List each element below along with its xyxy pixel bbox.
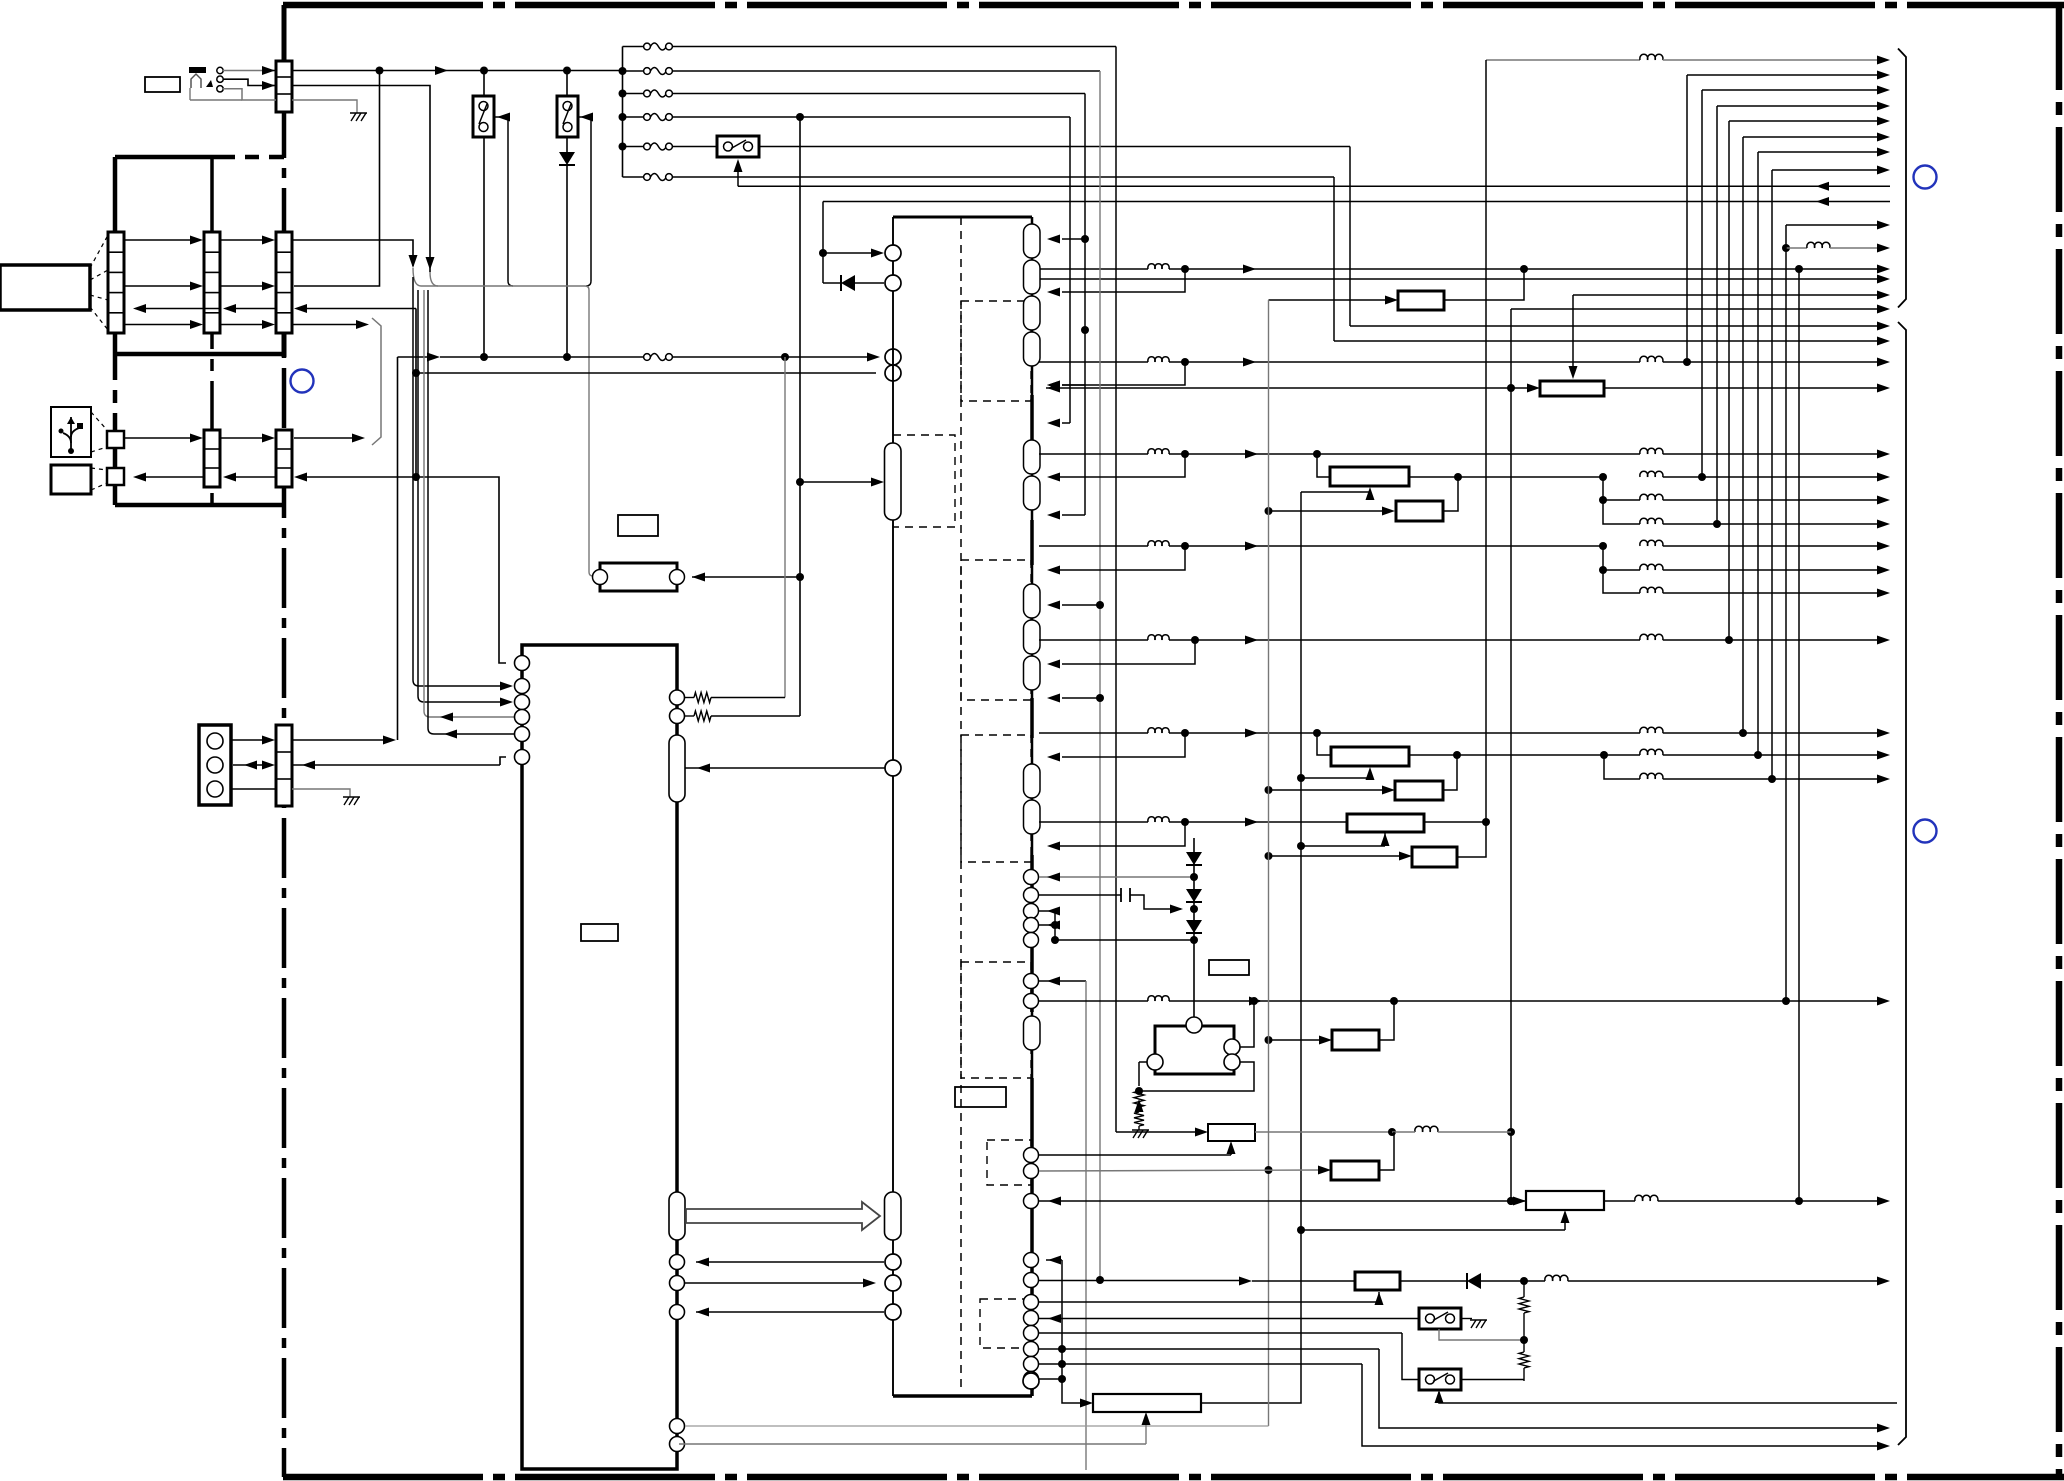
analog row y454 (1039, 448, 1890, 458)
board boundary dash-dot vertical (282, 5, 287, 1477)
label box in IC1 bottom (955, 1087, 1006, 1107)
signal group bracket (pickup) (372, 318, 381, 445)
IC U2 right pill pin bottom (669, 1192, 685, 1240)
resistor R17 (1398, 291, 1444, 310)
pickup block (0, 265, 90, 310)
wire SW4 bottom (1439, 1329, 1528, 1344)
headphone jack label box (145, 77, 180, 92)
wire pin y877 (1039, 873, 1198, 882)
diode chain D2 D3 D4 (1186, 838, 1202, 1017)
wire R3 out (1409, 751, 1608, 759)
wire CN4 pin1 riser (292, 357, 398, 745)
wire drop to U2 pin y686 (413, 277, 513, 691)
signal row y1283 (1039, 1277, 1355, 1286)
usb block boundary bottom (115, 503, 282, 508)
supply bus x785 (784, 357, 786, 698)
wire R7 feed (1265, 1036, 1333, 1045)
output row y170 (1772, 166, 1890, 175)
wire R5 out (1424, 821, 1486, 823)
wire pin y981 (grey drop) (1039, 977, 1086, 1471)
output row y309 (1511, 305, 1890, 314)
IC pin feed y239 (1047, 235, 1085, 244)
resistor R14 (zigzag) + ground (1132, 1099, 1149, 1138)
analog row y733 return (1047, 733, 1185, 762)
USB symbol box (51, 407, 91, 457)
wire CN1 pin2 drop (292, 86, 438, 287)
headphone jack plug symbol (189, 67, 242, 100)
wire U2 pin to bus x1268 (685, 1425, 1269, 1427)
usb dashed leads (91, 412, 107, 490)
flex wires row4 (124, 320, 275, 329)
jack contact 2 (217, 76, 223, 82)
control row y201 (823, 197, 1890, 206)
bus vertical x1268 (1268, 300, 1270, 1426)
wire SW2 control drop (577, 113, 593, 287)
power connector block (3 pins) (199, 725, 231, 805)
wire R4 out (1443, 755, 1457, 790)
bus arrow (parallel data) (686, 1202, 880, 1230)
jack contact 3 (217, 86, 223, 92)
wire pin riser y1260 (1046, 1256, 1062, 1265)
wire R1 out (1409, 473, 1607, 481)
resistor R15 (zigzag) (1519, 1281, 1529, 1340)
analog row y822 (1039, 817, 1347, 827)
supply vertical x1085 (1081, 94, 1089, 516)
analog row y640 return (1047, 640, 1195, 669)
usb connector column 3 (276, 430, 292, 487)
wire Q1 collector (1240, 1001, 1254, 1047)
resistor R10 (1355, 1272, 1400, 1290)
supply vertical x1100 (1096, 71, 1104, 1284)
staircase row y1450 (1039, 1360, 1890, 1451)
IC U1 (system LSI) (893, 217, 1032, 1396)
group bracket 2 (1898, 322, 1906, 1445)
wire R17 out (1444, 269, 1524, 300)
fuse F6 row6 drop (623, 174, 1335, 342)
ground symbol (power conn) (343, 797, 360, 805)
output row y60 (coil) (1486, 54, 1890, 64)
resistor R8 + row y388 (1046, 381, 1890, 396)
wire drop to U2 pin y717 (424, 290, 514, 722)
bus row y1283i (685, 1279, 876, 1288)
staircase row y1432 (1039, 1345, 1890, 1433)
blue circle ref C (1914, 820, 1937, 843)
switch SW1 (473, 71, 494, 358)
resistor R3 (1331, 747, 1409, 766)
resistor R7 (1332, 1030, 1379, 1050)
wire R10 bottom arrow (1039, 1292, 1384, 1305)
label box near crystal (618, 515, 658, 536)
wire drop to U2 pin y702 (418, 290, 513, 707)
IC U1 pill pin left (ribbon) (885, 1192, 902, 1240)
diode D5 + row east (1400, 1273, 1890, 1289)
usb square pad 2 (107, 468, 124, 485)
wire SW3 east drop (759, 147, 1350, 327)
ground (SW4) (1461, 1319, 1487, 1329)
bus row y1262 (696, 1258, 884, 1267)
optical block boundary bottom (115, 352, 284, 357)
fuse F1 row1 (623, 43, 1117, 50)
resistor R5 (1347, 814, 1424, 832)
IC U2 (front end block) (522, 645, 677, 1469)
wire R4 feed (1265, 786, 1396, 795)
IC pin feed y605 (1047, 601, 1100, 610)
fuse bus vertical (622, 47, 624, 178)
wire R1 feed (1317, 454, 1330, 477)
switch SW2 (557, 71, 578, 153)
wire SW5 feed (from pin row 1333) (1039, 1333, 1419, 1380)
filter cluster y570-593 (1599, 546, 1890, 598)
jack contact 1 (217, 67, 223, 73)
IC pin feed y385 (1047, 381, 1085, 390)
box B1 row y1132 (1116, 1124, 1511, 1141)
group2 row y326 (1350, 322, 1890, 331)
IC U2 right pill pin top (669, 735, 685, 802)
resistor R16 (zigzag) (1519, 1340, 1529, 1381)
supply bus x800 (796, 117, 804, 716)
wire USB row1 to bracket arrow (294, 434, 365, 443)
wire CN1 pin1 east to fuse bus (292, 66, 622, 75)
page border frame right (dash-dot) (2056, 5, 2063, 1477)
wire CN4 pin3 to ground (231, 789, 350, 797)
servo bus x1301 (1201, 492, 1305, 1403)
output row y248 (coil) (1782, 242, 1890, 252)
resistor R6 (1412, 847, 1457, 867)
connector CN3 column 3 (276, 232, 292, 333)
IC U1 pin circle y357 (885, 349, 901, 365)
connector CN2 column 2 (204, 232, 220, 333)
flex wires row2 (124, 282, 275, 291)
wire jack tip to CN1 pin1 (223, 66, 276, 75)
capacitor C1 (1039, 888, 1198, 914)
supply row y357 (398, 353, 881, 362)
crystal X1 (593, 563, 685, 591)
group2 row y362 return (1047, 362, 1185, 390)
page border frame bottom (dash-dot) (283, 1474, 2064, 1481)
USB lower label box (51, 465, 91, 494)
resistor R4 (1395, 781, 1443, 800)
wire crystal right to bus (692, 573, 804, 582)
IC U1 pill pin left (xtal in) (885, 443, 902, 520)
IC pin feed y698 (1047, 694, 1100, 703)
group bracket 1 (1898, 49, 1906, 308)
output row y75 (1687, 71, 1890, 80)
wire drop to U2 pin y734 (428, 290, 514, 739)
wire jack sleeve to CN1 pin3 (223, 89, 276, 100)
wire jack ring to CN1 pin2 (223, 79, 276, 90)
filter cluster y477-524 (1599, 471, 1890, 528)
usb connector column 2 (204, 430, 220, 487)
analog row y454 return (1047, 454, 1185, 482)
IC U2 right edge pins (670, 690, 685, 1452)
wire jack riser to CN3 row2 (294, 71, 380, 287)
wire R2 feed (1265, 507, 1396, 516)
supply vertical x1070 (1069, 117, 1071, 423)
diode D1 (559, 152, 575, 357)
blue circle ref B (1914, 166, 1937, 189)
wire into pill pin (800, 478, 884, 487)
IC U1 bottom right pin circle (1023, 1373, 1039, 1389)
wire CN3 row3 riser (412, 309, 506, 664)
wire R1 bottom arrow (1301, 487, 1375, 500)
output row y279 (1039, 275, 1890, 284)
IC U1 left edge circle pins (885, 245, 901, 1320)
fuse F5 row5 (619, 143, 718, 151)
switch SW4 (1039, 1308, 1461, 1329)
analog row y269 (1039, 264, 1890, 274)
long box B3 (1093, 1394, 1201, 1412)
IC pin feed y515 (1047, 511, 1085, 520)
output row y137 (1743, 133, 1890, 142)
analog row y640 (1039, 634, 1890, 644)
wire pins y911-940 (1039, 907, 1194, 945)
group2 row y341 (1334, 337, 1890, 346)
group2 row y362 (1039, 356, 1890, 366)
optical block inner dash-dot vertical (210, 157, 214, 505)
analog row y546 (1039, 540, 1890, 550)
wire R6 feed (1265, 852, 1413, 861)
wire B3 bottom arrow (679, 1412, 1151, 1444)
usb square pad 1 (107, 431, 124, 448)
resistor R2 (1396, 501, 1443, 521)
wire R3 feed (1317, 733, 1331, 755)
analog row y269 return (1047, 269, 1185, 297)
analog row y733 (1039, 727, 1890, 737)
flex wires row1 (124, 236, 275, 245)
IC U1 right edge pin bumps (1024, 224, 1041, 1390)
wire R3 bottom arrow (1301, 767, 1375, 780)
label box mid (1209, 960, 1249, 975)
pickup dashed leads (90, 235, 108, 330)
IC U1 pin circle y373 (885, 365, 901, 381)
resistor R13 (zigzag) (1134, 1091, 1144, 1107)
wire R7 out (1379, 1001, 1394, 1040)
fuse F2 row2 (619, 67, 1101, 75)
wire CN3 row4 to group bracket (292, 320, 369, 329)
supply row y373 (412, 369, 876, 377)
wire IC1 bottom pin bus x1062 (1039, 1260, 1093, 1408)
filter cluster y755-779 (1604, 749, 1890, 783)
fan bus verticals (1482, 60, 1803, 1205)
resistor R9 (1039, 1132, 1394, 1180)
connector CN2 column 1 (108, 232, 124, 333)
analog row y546 return (1047, 546, 1185, 575)
page border frame top (dash-dot) (283, 2, 2064, 9)
flex wires row3 (left arrows) (133, 304, 276, 313)
wire Q1 base (1139, 1062, 1147, 1086)
box B2 row y1201 (1039, 1191, 1890, 1210)
wire SW3 control riser (734, 159, 743, 186)
wire SW1 control drop (494, 113, 513, 287)
output row y152 (1758, 148, 1890, 157)
switch SW5 (1419, 1369, 1524, 1390)
switch SW3 (717, 136, 759, 157)
wire y205 riser to IC pins (819, 202, 884, 292)
bus row y1312 (696, 1308, 884, 1317)
wire U2 pill to U1 pin y768 (685, 764, 885, 773)
output row y106 (1717, 102, 1890, 111)
wire CN4 pin1 (231, 736, 275, 745)
IC U1 internal dashed blocks (893, 301, 1031, 1348)
optical block boundary left (113, 157, 118, 505)
control row y186 (738, 182, 1890, 191)
wire CN4 pin2 to U2 (292, 757, 506, 770)
wire CN3 row1 drop (292, 240, 421, 286)
wire R2 out (1443, 477, 1458, 511)
wire R5 bottom arrow (1301, 833, 1390, 846)
output row y121 (1729, 117, 1890, 126)
usb wire row2 (left arrows) (133, 473, 416, 482)
blue circle ref A (291, 370, 314, 393)
wire Q1 emitter loop (1135, 1062, 1254, 1095)
output row y225 (1786, 221, 1890, 230)
usb wire row1 (124, 434, 275, 443)
wire row1230 feed B2 (1301, 1210, 1570, 1230)
resistor R12 (zigzag y716) (685, 711, 800, 721)
IC pin feed y423 (1047, 419, 1070, 428)
output row y90 (1702, 86, 1890, 95)
fuse F3 row3 (619, 90, 1086, 98)
analog row y822 return (1047, 822, 1185, 851)
wire R17 feed (1269, 296, 1399, 305)
optical block boundary top (115, 155, 284, 160)
IC U2 left edge pins (515, 656, 530, 765)
fuse F4 row4 (619, 113, 1071, 121)
supply vertical x1116 (1115, 47, 1117, 1133)
IC U2 label box (581, 924, 618, 941)
wire CN3 row3 bus (294, 304, 416, 313)
analog row y1001 (1039, 996, 1890, 1006)
output row y295 (1569, 291, 1891, 380)
resistor R11 (zigzag y697) (685, 693, 785, 703)
connector CN1 (jack) (276, 61, 292, 112)
connector CN4 (276, 725, 292, 806)
transistor Q1 block (1147, 1017, 1240, 1074)
wire SW5 bottom arrow (1435, 1390, 1898, 1403)
wire B1 bottom arrow (1039, 1141, 1236, 1155)
wire CN1 pin3 to ground (292, 100, 357, 113)
IC U1 internal dashed divider (960, 217, 962, 1390)
ground symbol (jack) (350, 113, 367, 121)
resistor R1 (1330, 467, 1409, 486)
wire R6 out (1457, 822, 1486, 857)
wire CN4 pin2 (bidirectional) (233, 761, 275, 770)
wire routing bus y286 (421, 286, 594, 576)
